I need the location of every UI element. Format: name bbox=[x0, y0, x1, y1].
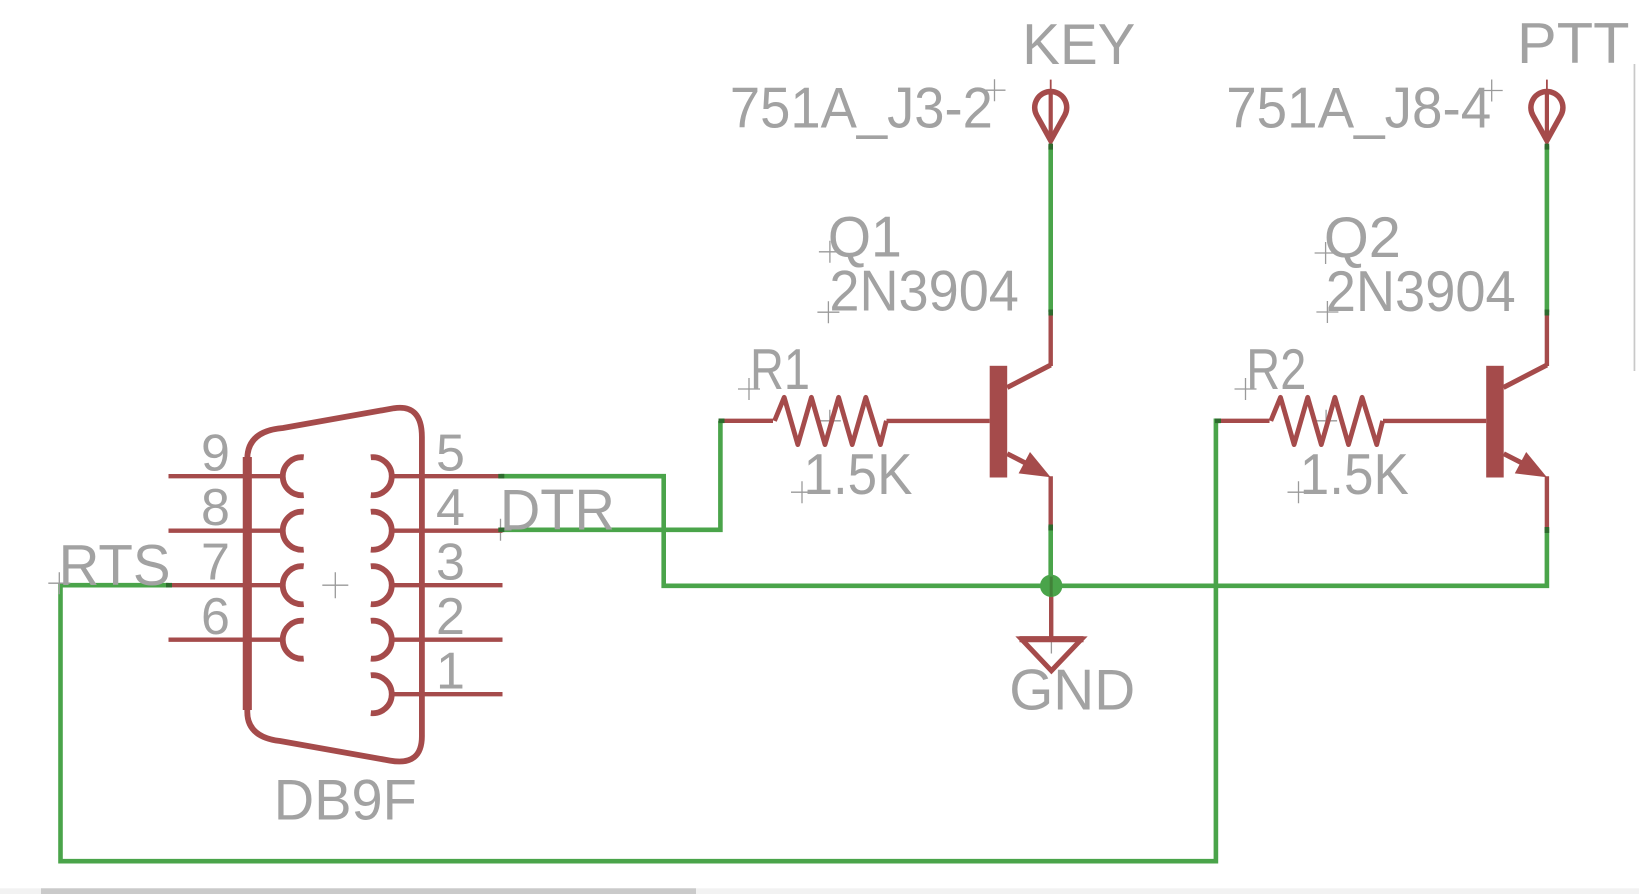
svg-text:2: 2 bbox=[436, 588, 465, 646]
svg-text:GND: GND bbox=[1009, 659, 1135, 723]
svg-text:4: 4 bbox=[436, 479, 465, 537]
svg-text:2N3904: 2N3904 bbox=[1326, 260, 1516, 324]
svg-text:2N3904: 2N3904 bbox=[829, 259, 1019, 323]
svg-text:9: 9 bbox=[201, 425, 230, 483]
svg-text:6: 6 bbox=[201, 588, 230, 646]
svg-text:751A_J3-2: 751A_J3-2 bbox=[730, 77, 993, 141]
svg-text:5: 5 bbox=[436, 425, 465, 483]
svg-text:751A_J8-4: 751A_J8-4 bbox=[1226, 77, 1491, 141]
svg-text:R1: R1 bbox=[750, 338, 810, 402]
svg-text:PTT: PTT bbox=[1517, 12, 1630, 76]
svg-text:R2: R2 bbox=[1246, 338, 1306, 402]
svg-text:1.5K: 1.5K bbox=[804, 443, 913, 507]
svg-text:8: 8 bbox=[201, 479, 230, 537]
svg-text:DB9F: DB9F bbox=[274, 769, 417, 833]
svg-text:RTS: RTS bbox=[59, 534, 171, 598]
svg-text:7: 7 bbox=[201, 534, 230, 592]
svg-text:KEY: KEY bbox=[1022, 13, 1135, 77]
svg-text:3: 3 bbox=[436, 534, 465, 592]
svg-text:DTR: DTR bbox=[500, 479, 615, 543]
svg-text:1.5K: 1.5K bbox=[1300, 443, 1409, 507]
svg-text:1: 1 bbox=[436, 643, 465, 701]
